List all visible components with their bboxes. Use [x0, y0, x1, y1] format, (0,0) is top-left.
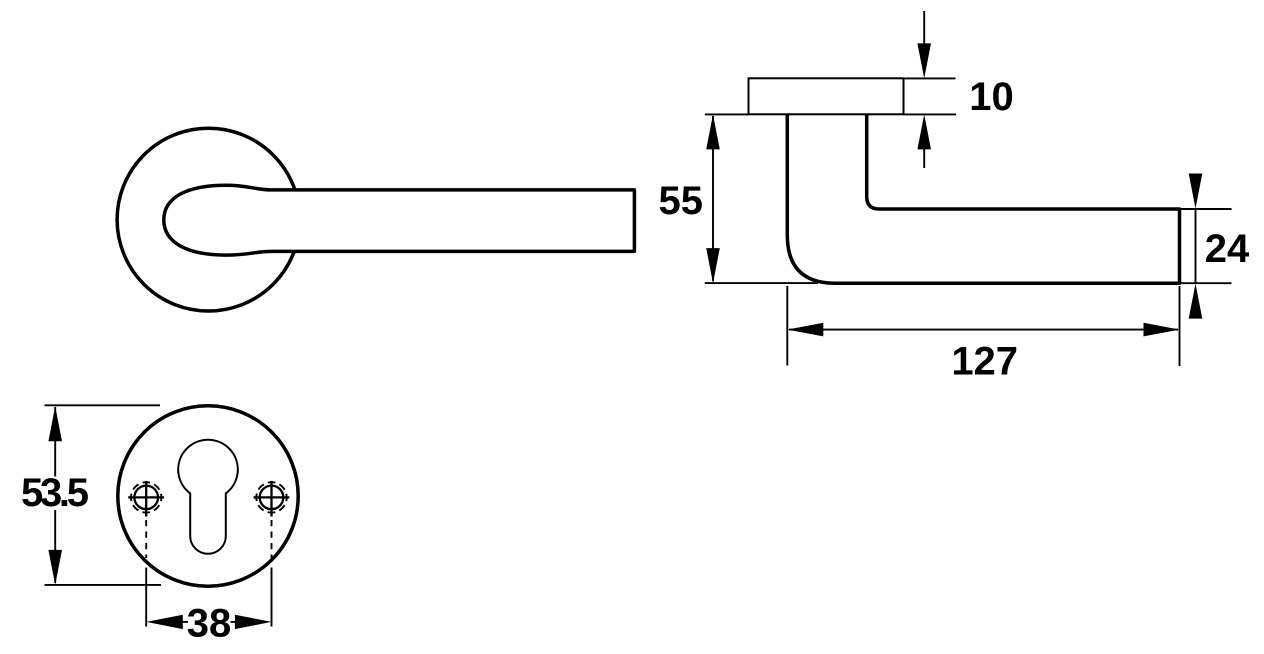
arrow down (24) [1189, 174, 1203, 209]
ext line right (127) [1179, 286, 1181, 366]
dim line left segment (38) [182, 621, 188, 623]
arrow up (24) [1189, 284, 1203, 319]
dim line upper (53.5) [54, 407, 56, 477]
arrow left (38) [146, 615, 183, 629]
ext line top (10) [904, 77, 956, 79]
dim line right segment (38) [231, 621, 237, 623]
svg-text:53.5: 53.5 [21, 471, 89, 515]
dashed drop line right [271, 520, 273, 558]
ext line left (127) [786, 286, 788, 366]
rose plate rectangle (side view) [749, 78, 904, 114]
arrow up (10) [917, 114, 931, 149]
arrow right (127) [1144, 323, 1180, 337]
svg-text:10: 10 [969, 75, 1014, 119]
ext line left (38) [145, 568, 147, 627]
screw hole right [254, 481, 290, 517]
screw circle right [260, 486, 284, 510]
arrow down (53.5) [48, 550, 62, 585]
dim line lower (53.5) [54, 510, 56, 583]
dim line below (10) [923, 148, 925, 168]
ext line bottom (24) [1180, 282, 1232, 284]
svg-text:38: 38 [187, 602, 232, 646]
ext line bottom (55) [705, 282, 818, 284]
svg-text:24: 24 [1205, 227, 1250, 271]
ext line bottom (10) [904, 113, 957, 115]
rose circle (front view) [117, 128, 300, 311]
lever handle (front view) [164, 185, 635, 255]
dim line above (10) [923, 11, 925, 46]
dim line (24) [1195, 209, 1197, 283]
crosshair vertical right [270, 481, 272, 517]
arrow down (10) [917, 43, 931, 78]
ext line top (55) [705, 113, 749, 115]
ext line top (53.5) [45, 404, 161, 406]
screw circle left [134, 486, 158, 510]
ext line bottom (53.5) [45, 584, 162, 586]
svg-text:127: 127 [951, 340, 1018, 384]
screw hole left [128, 481, 164, 517]
euro profile keyhole [178, 440, 238, 554]
dim line (127) [789, 329, 1178, 331]
dashed circle left [131, 482, 161, 512]
crosshair horizontal left [128, 496, 164, 498]
crosshair vertical left [145, 481, 147, 517]
arrow up (55) [706, 114, 720, 149]
arrow up (53.5) [48, 406, 62, 441]
crosshair horizontal right [254, 496, 290, 498]
ext line right (38) [271, 568, 273, 627]
arrow left (127) [787, 323, 823, 337]
dim line (55) [712, 116, 714, 281]
arrow down (55) [706, 248, 720, 283]
arrow right (38) [235, 615, 272, 629]
escutcheon circle [118, 406, 298, 586]
dashed drop line left [145, 520, 147, 558]
dashed circle right [256, 482, 286, 512]
ext line top (24) [1180, 208, 1232, 210]
svg-text:55: 55 [659, 179, 704, 223]
lever neck and bar (side view) [787, 115, 1179, 284]
